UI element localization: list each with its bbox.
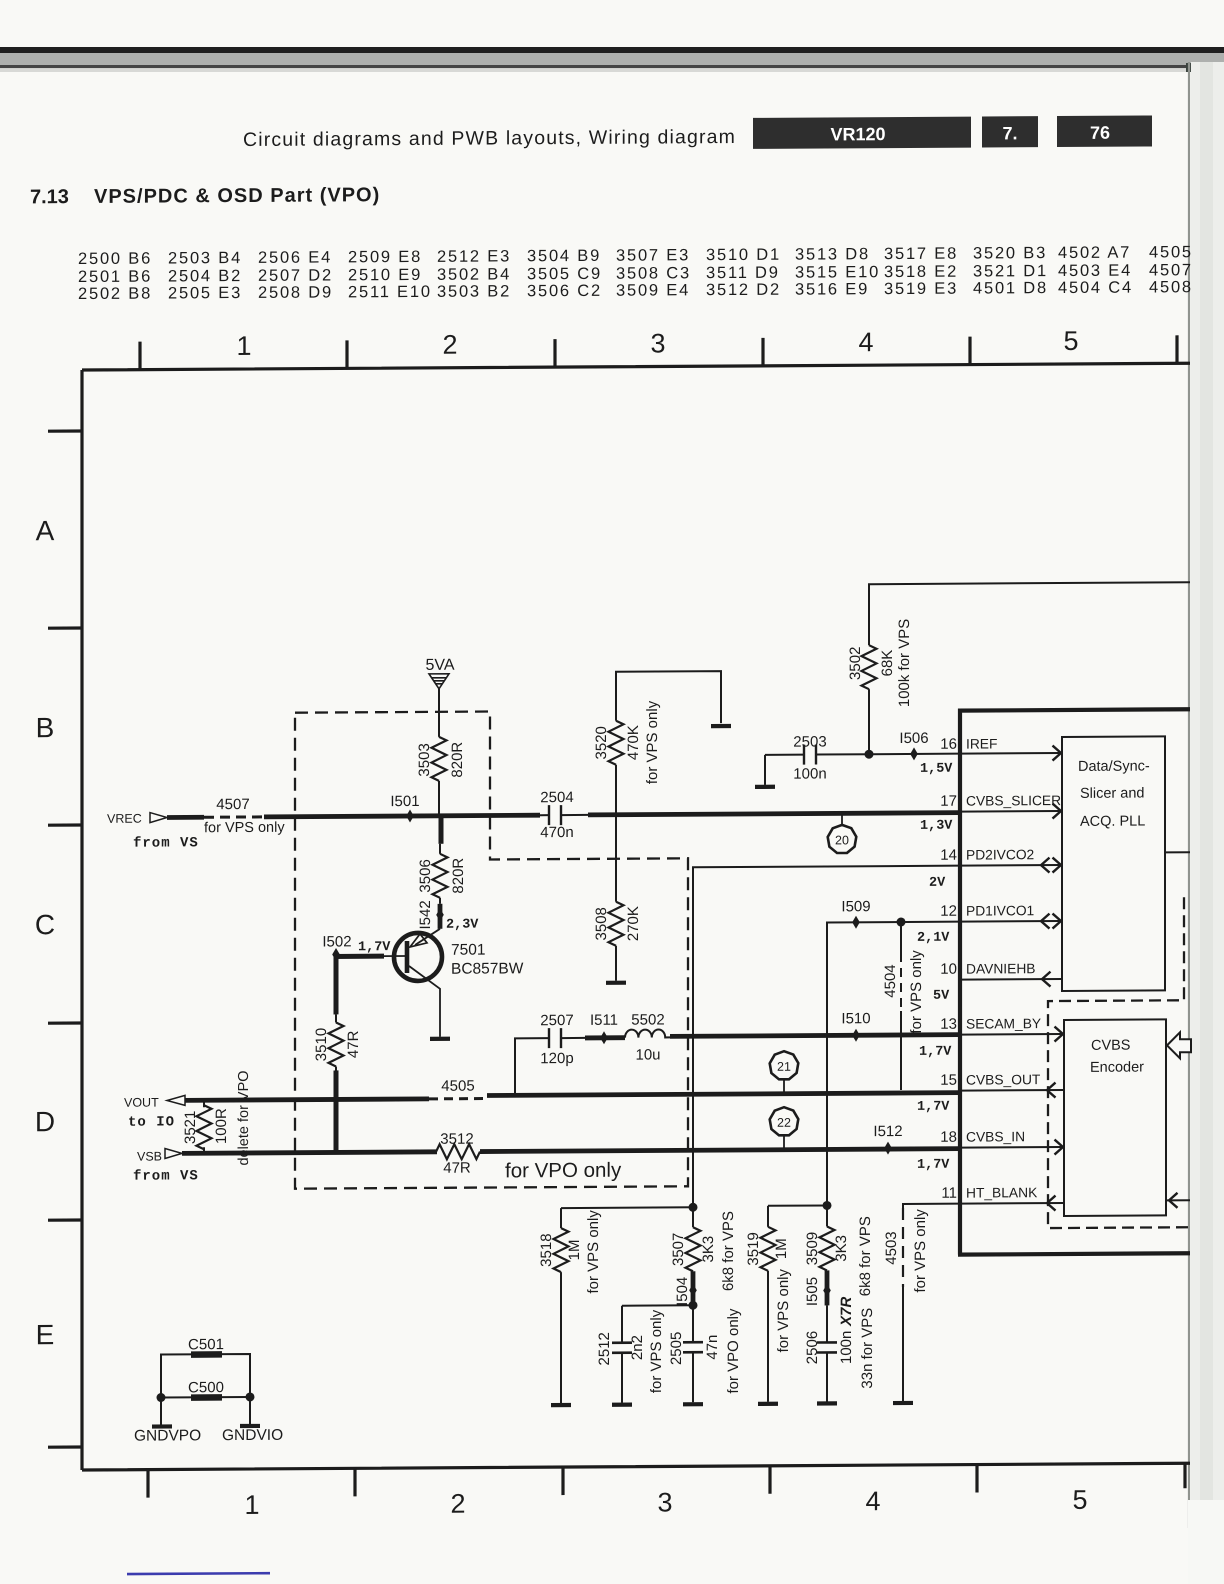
svg-text:for VPS only: for VPS only (585, 1210, 602, 1294)
svg-text:5VA: 5VA (425, 657, 454, 674)
resistor 3502 (862, 645, 877, 689)
svg-text:4504 C4: 4504 C4 (1058, 279, 1133, 297)
svg-text:7501: 7501 (451, 942, 485, 959)
svg-text:2503 B4: 2503 B4 (168, 249, 242, 267)
wire CVBS_IN bus (480, 1149, 959, 1152)
footer blue line (127, 1572, 270, 1575)
inductor 5502 (625, 1029, 670, 1037)
pin 17 CVBS_SLICER (960, 810, 1060, 813)
resistor 3506 (433, 854, 448, 898)
svg-text:for VPO only: for VPO only (725, 1308, 742, 1394)
wire IREF to pin 16 (869, 753, 959, 756)
resistor 3512 (436, 1144, 480, 1159)
capacitor 2507 (549, 1028, 585, 1048)
ground below 3519 (758, 1403, 778, 1405)
svg-text:3505 C9: 3505 C9 (527, 265, 602, 283)
component location table (78, 243, 1193, 303)
resistor 3520 (609, 721, 624, 765)
svg-text:470K: 470K (625, 725, 642, 760)
svg-text:4501 D8: 4501 D8 (973, 279, 1048, 297)
svg-text:3508 C3: 3508 C3 (616, 264, 691, 282)
svg-text:12: 12 (940, 903, 957, 920)
svg-text:4503 E4: 4503 E4 (1058, 262, 1132, 280)
header box 7. (982, 116, 1038, 147)
svg-text:3507 E3: 3507 E3 (616, 246, 690, 264)
svg-text:to IO: to IO (128, 1114, 175, 1130)
wire 3503 to bus (438, 781, 440, 816)
svg-text:3511 D9: 3511 D9 (706, 264, 780, 282)
svg-text:68K: 68K (879, 650, 896, 677)
svg-text:2507 D2: 2507 D2 (258, 266, 333, 284)
svg-text:21: 21 (777, 1060, 791, 1074)
svg-text:3519 E3: 3519 E3 (884, 280, 958, 298)
wire VSB bus left (182, 1152, 437, 1154)
svg-text:10: 10 (940, 961, 957, 978)
node junction 2512/2505 (689, 1301, 698, 1310)
node junction PD2 bottom (689, 1203, 698, 1212)
svg-text:7.13: 7.13 (30, 186, 69, 208)
pin 13 SECAM_BY (960, 1033, 1062, 1036)
svg-text:I509: I509 (841, 898, 870, 915)
test point I511 (585, 1035, 625, 1040)
svg-text:2501 B6: 2501 B6 (78, 268, 152, 286)
wire PD1IVCO1 net to I509 and down (827, 922, 959, 1206)
test point I509 (852, 916, 860, 929)
svg-text:2505: 2505 (668, 1332, 685, 1365)
svg-text:17: 17 (940, 793, 957, 810)
svg-text:1,7V: 1,7V (919, 1045, 952, 1060)
svg-text:10u: 10u (635, 1046, 660, 1063)
svg-text:100k for VPS: 100k for VPS (896, 619, 913, 707)
svg-text:4504: 4504 (882, 964, 899, 997)
svg-text:2503: 2503 (793, 733, 826, 750)
svg-text:18: 18 (940, 1129, 957, 1146)
svg-text:for VPS only: for VPS only (648, 1309, 665, 1393)
svg-text:2508 D9: 2508 D9 (258, 283, 333, 301)
svg-text:4507: 4507 (1149, 261, 1193, 279)
svg-text:2507: 2507 (540, 1012, 573, 1029)
wire HT_BLANK right side into encoder (1166, 1199, 1190, 1201)
svg-text:3: 3 (657, 1487, 672, 1517)
wire 2507 branch left (515, 1038, 548, 1094)
svg-text:3509 E4: 3509 E4 (616, 281, 690, 299)
ground GNDVIO (249, 1397, 251, 1424)
svg-text:4508: 4508 (1149, 278, 1193, 296)
wire 3502 to IREF (868, 689, 870, 754)
wire 3508 to ground (615, 946, 617, 981)
svg-text:I510: I510 (841, 1010, 870, 1027)
svg-text:3509: 3509 (804, 1232, 821, 1265)
svg-text:3516 E9: 3516 E9 (795, 280, 869, 298)
svg-text:3518 E2: 3518 E2 (884, 263, 958, 281)
svg-text:I511: I511 (590, 1012, 618, 1029)
svg-text:2n2: 2n2 (629, 1335, 646, 1360)
svg-text:47R: 47R (443, 1160, 471, 1177)
wire 3520 to 3508 (615, 765, 617, 902)
ground below 3518 (551, 1404, 571, 1406)
IC main block U7500 (958, 707, 1190, 1254)
svg-text:4507: 4507 (216, 796, 249, 813)
svg-text:22: 22 (777, 1116, 791, 1130)
wire to 3518 (561, 1206, 693, 1209)
ground below 2506 (817, 1402, 837, 1404)
wire to 3519 (768, 1204, 827, 1206)
svg-text:47n: 47n (704, 1335, 721, 1360)
node junction 3519/3509 (823, 1201, 832, 1210)
svg-text:I504: I504 (674, 1277, 691, 1306)
svg-text:5: 5 (1063, 326, 1078, 356)
node junction C500 right (246, 1392, 255, 1401)
svg-text:C501: C501 (188, 1336, 224, 1353)
svg-text:for VPS only: for VPS only (775, 1268, 792, 1352)
test point I502 (332, 948, 340, 961)
wire 2503 to ground (764, 755, 766, 785)
resistor 3507 (692, 1207, 694, 1227)
svg-text:C: C (35, 909, 55, 940)
svg-text:1,3V: 1,3V (920, 819, 953, 834)
svg-text:B: B (36, 712, 55, 743)
wire HT_BLANK to 4503 (903, 1204, 959, 1208)
svg-text:1,5V: 1,5V (920, 762, 953, 777)
svg-text:X7R: X7R (838, 1297, 855, 1327)
wire VOUT bus (185, 1099, 429, 1100)
wire CVBS_SLICER bus left (264, 815, 540, 817)
svg-text:GNDVIO: GNDVIO (222, 1427, 283, 1444)
svg-text:1: 1 (244, 1490, 259, 1520)
capacitor 2504 (540, 805, 588, 825)
resistor 3508 (609, 902, 624, 946)
node callout 21 (770, 1051, 799, 1079)
svg-text:3520 B3: 3520 B3 (973, 244, 1047, 262)
pin 11 HT_BLANK (960, 1202, 1064, 1205)
test point I506 (910, 747, 918, 760)
capacitor 2506 (826, 1305, 828, 1341)
svg-text:3502: 3502 (847, 647, 864, 680)
svg-text:270K: 270K (625, 906, 642, 941)
pin 12 PD1IVCO1 (960, 920, 1060, 923)
svg-text:VREC: VREC (107, 812, 142, 826)
node callout 22 (770, 1107, 799, 1135)
ruler top numbers (236, 326, 1078, 361)
capacitor 2505 (692, 1305, 694, 1341)
capacitor C500 (161, 1396, 250, 1399)
block Data/Sync-Slicer and ACQ. PLL (1062, 736, 1165, 991)
svg-text:SECAM_BY: SECAM_BY (966, 1016, 1041, 1031)
svg-text:2510 E9: 2510 E9 (348, 266, 422, 284)
svg-text:3: 3 (650, 328, 665, 358)
svg-text:A: A (36, 515, 55, 546)
svg-text:PD2IVCO2: PD2IVCO2 (966, 847, 1034, 862)
wire collector (409, 966, 440, 1037)
svg-text:4: 4 (865, 1486, 880, 1516)
svg-text:3517 E8: 3517 E8 (884, 245, 958, 263)
wire 5VA to 3503 (438, 689, 440, 737)
svg-text:4: 4 (858, 327, 873, 357)
block CVBS Encoder (1064, 1019, 1166, 1216)
ground below 7501 (430, 1038, 450, 1040)
svg-text:4505: 4505 (1149, 243, 1193, 261)
svg-text:for VPS only: for VPS only (912, 1209, 929, 1293)
ground GNDVPO (160, 1398, 162, 1425)
svg-text:2: 2 (450, 1489, 465, 1519)
svg-text:6k8 for VPS: 6k8 for VPS (857, 1216, 874, 1296)
svg-text:BC857BW: BC857BW (451, 960, 524, 977)
svg-text:from VS: from VS (133, 835, 199, 851)
pin 18 CVBS_IN (960, 1146, 1062, 1149)
resistor 3510 (329, 1022, 344, 1066)
svg-text:5V: 5V (933, 989, 950, 1004)
ground below 2505 (683, 1403, 703, 1405)
svg-text:GNDVPO: GNDVPO (134, 1427, 201, 1444)
resistor 3518 (560, 1208, 562, 1228)
resistor 3503 (432, 737, 447, 781)
svg-text:I502: I502 (322, 933, 351, 950)
svg-text:3502 B4: 3502 B4 (437, 265, 511, 283)
svg-text:3512 D2: 3512 D2 (706, 281, 781, 299)
wire PD2IVCO2 net down (693, 866, 959, 1208)
svg-text:for VPS only: for VPS only (204, 820, 285, 836)
svg-text:3515 E10: 3515 E10 (795, 263, 880, 282)
svg-text:2509 E8: 2509 E8 (348, 248, 422, 266)
svg-text:2512 E3: 2512 E3 (437, 247, 511, 265)
svg-text:1,7V: 1,7V (917, 1100, 950, 1115)
svg-text:470n: 470n (540, 824, 573, 841)
svg-text:HT_BLANK: HT_BLANK (966, 1185, 1038, 1200)
svg-text:CVBS_SLICER: CVBS_SLICER (966, 793, 1061, 809)
svg-text:for VPS only: for VPS only (908, 950, 925, 1034)
svg-text:100n: 100n (838, 1331, 855, 1364)
svg-text:3510 D1: 3510 D1 (706, 246, 781, 264)
ruler top ticks (140, 335, 1177, 369)
svg-text:6k8 for VPS: 6k8 for VPS (720, 1211, 737, 1291)
top scan band (0, 47, 1224, 53)
resistor 3519 (767, 1206, 769, 1227)
svg-text:5: 5 (1072, 1485, 1087, 1515)
test point I505 (825, 1270, 830, 1305)
resistor 3521 (203, 1100, 205, 1107)
svg-text:3520: 3520 (593, 726, 610, 759)
svg-text:2504 B2: 2504 B2 (168, 267, 242, 285)
wire top net to 3502 (869, 582, 1190, 645)
svg-text:3504 B9: 3504 B9 (527, 247, 601, 265)
svg-text:15: 15 (940, 1072, 957, 1089)
svg-text:3508: 3508 (593, 907, 610, 940)
test point I504 (691, 1271, 696, 1305)
ruler left ticks (48, 431, 82, 1447)
svg-text:2506 E4: 2506 E4 (258, 248, 332, 266)
capacitor 2503 (765, 744, 869, 765)
svg-text:PD1IVCO1: PD1IVCO1 (966, 903, 1034, 918)
wire CVBS_SLICER bus right (588, 813, 959, 815)
wire emitter (415, 929, 440, 945)
svg-text:I505: I505 (804, 1277, 821, 1306)
node junction C500 left (157, 1393, 166, 1402)
svg-text:for VPO only: for VPO only (505, 1159, 622, 1183)
svg-text:2511 E10: 2511 E10 (348, 283, 432, 302)
svg-text:5502: 5502 (631, 1011, 664, 1028)
jumper 4504 dashed (900, 922, 902, 953)
wire to 2512 (622, 1305, 693, 1341)
ground below 2503 (755, 786, 775, 788)
svg-text:4502 A7: 4502 A7 (1058, 244, 1131, 262)
svg-text:20: 20 (835, 833, 849, 847)
svg-text:VPS/PDC & OSD Part (VPO): VPS/PDC & OSD Part (VPO) (94, 184, 380, 208)
header box VR120 (753, 117, 971, 149)
svg-text:47R: 47R (345, 1030, 362, 1058)
svg-text:4503: 4503 (883, 1231, 900, 1264)
svg-text:2512: 2512 (596, 1332, 613, 1365)
svg-text:1,7V: 1,7V (358, 940, 391, 955)
right scan band (1191, 62, 1224, 1510)
svg-text:C500: C500 (188, 1379, 224, 1396)
svg-text:3518: 3518 (538, 1233, 555, 1266)
power 5VA symbol (429, 674, 449, 689)
svg-text:100n: 100n (793, 765, 826, 782)
node callout 20 (841, 815, 843, 826)
svg-text:3519: 3519 (745, 1232, 762, 1265)
wire VREC stub (167, 815, 204, 820)
big hollow arrow into CVBS encoder (1167, 1032, 1191, 1058)
test point I501 (406, 809, 414, 822)
test point I512 (884, 1142, 892, 1155)
wire slicer block to right (1165, 851, 1190, 853)
svg-text:3513 D8: 3513 D8 (795, 245, 870, 263)
svg-text:3512: 3512 (440, 1131, 473, 1148)
ground below 3508 (606, 982, 626, 984)
header box 76 (1057, 115, 1152, 147)
svg-text:2504: 2504 (540, 789, 573, 806)
jumper 4503 dashed (902, 1208, 904, 1287)
transistor 7501 emitter arrow (410, 934, 427, 947)
svg-text:ACQ. PLL: ACQ. PLL (1080, 814, 1145, 830)
dashed box CVBS encoder region (1048, 897, 1190, 1228)
svg-text:4505: 4505 (441, 1078, 474, 1095)
transistor 7501 (394, 933, 442, 981)
svg-text:2V: 2V (929, 876, 946, 891)
pin 16 IREF (960, 752, 1060, 755)
jumper 4505 dashed (429, 1097, 487, 1100)
svg-text:D: D (35, 1106, 55, 1137)
svg-text:3K3: 3K3 (833, 1235, 850, 1262)
svg-text:1M: 1M (773, 1238, 790, 1259)
svg-text:CVBS_IN: CVBS_IN (966, 1129, 1025, 1144)
capacitor 2512 (612, 1343, 632, 1353)
svg-text:E: E (36, 1319, 55, 1350)
svg-text:3503 B2: 3503 B2 (437, 282, 511, 300)
svg-text:I506: I506 (899, 730, 928, 747)
svg-text:3507: 3507 (670, 1233, 687, 1266)
ground below 2512 (612, 1404, 632, 1406)
svg-text:3506: 3506 (417, 859, 434, 892)
svg-text:2505 E3: 2505 E3 (168, 284, 242, 302)
svg-text:Circuit diagrams and PWB layou: Circuit diagrams and PWB layouts, Wiring… (243, 126, 736, 151)
svg-text:1: 1 (236, 331, 251, 361)
svg-text:76: 76 (1090, 123, 1110, 143)
ruler bottom numbers (244, 1485, 1087, 1520)
svg-text:120p: 120p (540, 1050, 573, 1067)
svg-text:1,7V: 1,7V (917, 1158, 950, 1173)
svg-text:7.: 7. (1002, 123, 1017, 143)
resistor 3509 (826, 1205, 828, 1226)
svg-text:3506 C2: 3506 C2 (527, 282, 602, 300)
wire base (384, 955, 405, 957)
test point I542 (438, 904, 443, 929)
svg-text:VOUT: VOUT (124, 1096, 159, 1110)
svg-text:2502 B8: 2502 B8 (78, 285, 152, 303)
svg-text:2: 2 (442, 330, 457, 360)
svg-text:13: 13 (940, 1016, 957, 1033)
ground below 4503 (893, 1402, 913, 1404)
svg-text:2500 B6: 2500 B6 (78, 250, 152, 268)
svg-text:I501: I501 (390, 793, 419, 810)
node junction 3502/IREF (865, 750, 874, 759)
svg-text:DAVNIEHB: DAVNIEHB (966, 961, 1036, 976)
capacitor C501 (161, 1354, 250, 1398)
svg-text:820R: 820R (450, 858, 467, 894)
pin 10 DAVNIEHB (960, 978, 1062, 981)
svg-text:2506: 2506 (804, 1331, 821, 1364)
svg-text:Slicer and: Slicer and (1080, 786, 1144, 802)
svg-text:3503: 3503 (416, 743, 433, 776)
svg-text:VSB: VSB (137, 1150, 162, 1164)
svg-text:Data/Sync-: Data/Sync- (1078, 758, 1150, 774)
svg-text:33n for VPS: 33n for VPS (859, 1308, 876, 1389)
jumper 4507 dashed (204, 815, 264, 818)
svg-text:1M: 1M (566, 1240, 583, 1261)
node junction 4504 top (897, 917, 906, 926)
svg-text:100R: 100R (213, 1108, 230, 1144)
pin 15 CVBS_OUT (960, 1089, 1064, 1092)
svg-text:CVBS: CVBS (1091, 1038, 1130, 1054)
svg-text:3K3: 3K3 (700, 1236, 717, 1263)
svg-text:3510: 3510 (313, 1028, 330, 1061)
resistor 3520 top wire and ground (616, 671, 721, 724)
svg-text:from VS: from VS (133, 1168, 199, 1184)
svg-text:CVBS_OUT: CVBS_OUT (966, 1072, 1041, 1087)
svg-text:11: 11 (941, 1185, 957, 1202)
test point I510 (852, 1029, 860, 1042)
schematic frame (82, 363, 1190, 1470)
svg-text:I542: I542 (417, 900, 434, 929)
wire 3506 to I542 (439, 898, 441, 904)
svg-text:14: 14 (940, 847, 957, 864)
svg-text:2,1V: 2,1V (917, 931, 950, 946)
pin 14 PD2IVCO2 (960, 864, 1060, 867)
wire bus to 3506 (439, 818, 444, 844)
wire I502 down (334, 954, 339, 1014)
ruler bottom ticks (148, 1463, 1185, 1497)
svg-text:3521: 3521 (182, 1111, 199, 1144)
svg-text:IREF: IREF (966, 736, 997, 751)
svg-text:16: 16 (940, 736, 957, 753)
ruler row letters (35, 515, 55, 1350)
wire CVBS_OUT bus (487, 1093, 959, 1096)
svg-text:I512: I512 (873, 1123, 902, 1140)
dashed box for VPO only (295, 710, 688, 1188)
svg-text:VR120: VR120 (830, 124, 885, 144)
svg-text:for VPS only: for VPS only (644, 700, 661, 784)
svg-text:Encoder: Encoder (1090, 1060, 1144, 1076)
svg-text:3521 D1: 3521 D1 (973, 262, 1048, 280)
wire 3510 to VSB bus (335, 1066, 337, 1072)
svg-text:2,3V: 2,3V (446, 918, 479, 933)
svg-text:820R: 820R (449, 742, 466, 778)
wire SECAM_BY bus (670, 1035, 959, 1037)
